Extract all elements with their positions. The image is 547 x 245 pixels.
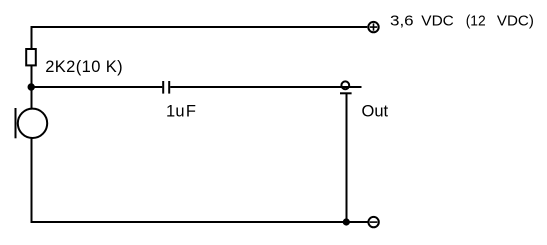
- microphone MIC body: [18, 109, 47, 138]
- wire: middle from junction to capacitor: [32, 86, 163, 88]
- capacitor C (1 uF) left plate: [162, 81, 164, 94]
- terminal +V plus sign: [370, 23, 377, 30]
- terminal Out tick bar: [340, 92, 352, 94]
- wire: top rail from left corner to + terminal: [32, 27, 368, 49]
- terminal -V minus sign: [370, 221, 378, 223]
- wire: capacitor to Out terminal: [170, 86, 361, 88]
- svg-text:2K2(10 K): 2K2(10 K): [45, 58, 123, 76]
- microphone MIC electret plate bar: [15, 108, 17, 138]
- svg-text:VDC: VDC: [421, 12, 454, 29]
- svg-text:VDC): VDC): [497, 12, 534, 29]
- resistor R (2K2 / 10K): [26, 49, 36, 65]
- terminal +V circle: [368, 22, 378, 32]
- terminal -V circle: [368, 217, 378, 227]
- capacitor C (1 uF) right plate: [168, 81, 170, 94]
- node A junction dot (resistor / mic / coupling cap): [29, 84, 34, 89]
- svg-text:3,6: 3,6: [390, 12, 414, 29]
- wire: Out terminal down to bottom rail: [346, 93, 348, 222]
- svg-text:(12: (12: [466, 12, 486, 29]
- wire: mic bottom to bottom rail to - terminal: [32, 138, 368, 222]
- node B junction dot (out / bottom rail): [344, 219, 349, 224]
- svg-text:Out: Out: [362, 103, 389, 121]
- terminal Out circle: [341, 81, 349, 89]
- svg-text:1uF: 1uF: [166, 103, 196, 121]
- wire: resistor bottom to mic top through junction: [31, 66, 33, 109]
